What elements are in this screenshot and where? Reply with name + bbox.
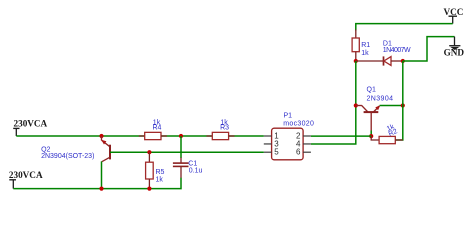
capacitor C1 <box>173 158 189 179</box>
junction dot R5 bottom <box>147 187 151 191</box>
junction dot Q2 collector bottom <box>99 187 103 191</box>
wire 230VCA top row <box>16 135 263 137</box>
wire GND net <box>403 37 455 61</box>
diode D1 <box>356 56 403 65</box>
svg-text:GND: GND <box>444 48 465 58</box>
wire Q2 collector down <box>101 161 103 188</box>
pin stub P1 pin2 <box>303 135 311 137</box>
svg-text:1k: 1k <box>361 50 369 57</box>
wire right vertical (GND node down to R2) <box>395 61 402 140</box>
svg-text:230VCA: 230VCA <box>9 170 43 180</box>
wire 230VCA bottom row <box>13 178 181 189</box>
junction dot Q1 collector <box>354 103 358 107</box>
resistor R3 <box>206 132 234 139</box>
junction dot R5 top <box>147 150 151 154</box>
svg-text:1k: 1k <box>156 177 164 184</box>
svg-text:1N4007W: 1N4007W <box>383 47 411 54</box>
svg-text:6: 6 <box>296 148 301 157</box>
resistor R1 <box>352 30 359 62</box>
wire moc pin2 to Q1 base node <box>311 135 371 137</box>
junction dot Q2 emitter <box>99 134 103 138</box>
wire VCC net <box>356 24 453 31</box>
wire collector net (D1 node down to moc pin4) <box>311 61 356 144</box>
net flag 230VCA top <box>13 118 47 136</box>
net flag 230VCA bottom <box>9 170 43 189</box>
pin stub P1 pin4 <box>303 143 311 145</box>
svg-text:R3: R3 <box>220 125 229 132</box>
wire C1 branch <box>180 136 182 158</box>
svg-text:5: 5 <box>274 148 279 157</box>
junction dot C1 top node <box>179 134 183 138</box>
svg-text:R1: R1 <box>361 42 370 49</box>
pin stub P1 pin5 <box>264 151 272 153</box>
svg-text:Q1: Q1 <box>367 87 376 94</box>
pin stub P1 pin6 <box>303 151 311 153</box>
junction dot Q1 base node <box>369 134 373 138</box>
junction dot D1 anode node <box>401 59 405 63</box>
junction dot Q1 emitter <box>401 103 405 107</box>
transistor Q1 <box>356 105 380 130</box>
wire Q1 base down <box>370 131 372 137</box>
pin stub P1 pin1 <box>264 135 272 137</box>
pin stub P1 pin3 <box>264 143 272 145</box>
net flag VCC <box>443 7 463 24</box>
wire Q2 base row to moc pin5 <box>110 151 264 153</box>
ground GND flag <box>444 37 465 58</box>
resistor R5 <box>146 152 154 188</box>
label R2 value 1k (rotated) <box>385 123 398 138</box>
IC P1 moc3020 <box>272 128 304 160</box>
svg-text:2N3904: 2N3904 <box>367 95 394 102</box>
svg-text:R4: R4 <box>153 125 162 132</box>
resistor R2 <box>371 136 403 144</box>
resistor R4 <box>139 132 167 139</box>
svg-text:VCC: VCC <box>443 7 463 17</box>
junction dot R1/D1 node <box>354 59 358 63</box>
svg-text:moc3020: moc3020 <box>283 120 314 127</box>
svg-text:R5: R5 <box>156 169 165 176</box>
svg-text:P1: P1 <box>284 113 293 120</box>
svg-text:230VCA: 230VCA <box>14 118 48 128</box>
svg-text:2N3904(SOT-23): 2N3904(SOT-23) <box>41 153 94 160</box>
wire Q1 emitter to right vertical <box>380 105 403 107</box>
svg-text:0.1u: 0.1u <box>189 168 203 175</box>
transistor Q2 <box>101 136 114 162</box>
